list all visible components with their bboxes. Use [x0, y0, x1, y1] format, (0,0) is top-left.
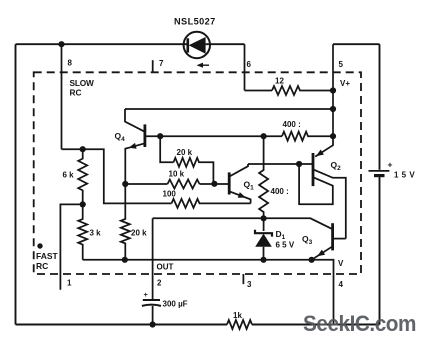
- transistor Q3 label: [302, 234, 313, 246]
- wire: outer border left side: [15, 44, 17, 324]
- pin 6 label: [247, 60, 252, 69]
- svg-text:OUT: OUT: [157, 263, 174, 272]
- svg-text:NSL5027: NSL5027: [174, 17, 216, 27]
- OUT label: [157, 263, 174, 272]
- resistor 400 ohm (horizontal): [282, 132, 333, 141]
- wire: Q1 collector to Q2 base: [248, 163, 313, 165]
- SLOW RC label: [70, 78, 94, 98]
- LED label NSL5027: [174, 17, 216, 27]
- watermark SeekIC.com: [303, 311, 416, 336]
- label 20 k (vertical): [131, 229, 147, 238]
- wire: pin 6 lead from LED: [244, 44, 246, 90]
- pin 7 label: [159, 59, 164, 68]
- wire: top right segment (pin 5 rail to battery): [333, 43, 380, 45]
- node: Q4 base to 20k branch: [157, 133, 163, 139]
- transistor Q3 emitter: [312, 246, 333, 259]
- label 1k: [233, 311, 242, 320]
- svg-text:RC: RC: [36, 261, 48, 271]
- svg-text:10 k: 10 k: [169, 170, 185, 179]
- transistor Q4 collector: [125, 109, 145, 132]
- svg-text:V+: V+: [340, 79, 350, 88]
- node: 400 ohm branch on base line: [261, 133, 267, 139]
- capacitor polarity +: [144, 290, 149, 299]
- wire: OUT line pin 2: [152, 218, 154, 300]
- svg-text:6: 6: [247, 60, 252, 69]
- transistor Q3 base bar: [331, 223, 334, 250]
- svg-text:300 µF: 300 µF: [163, 300, 188, 309]
- svg-text:+: +: [144, 290, 149, 299]
- wire: bottom supply rail (right of 1k): [252, 324, 380, 326]
- svg-text:+: +: [388, 160, 393, 170]
- svg-text:12: 12: [275, 77, 284, 86]
- svg-text:7: 7: [159, 59, 164, 68]
- label 3 k: [90, 229, 102, 238]
- wire: OUT line below capacitor: [152, 306, 154, 325]
- svg-text:1k: 1k: [233, 311, 242, 320]
- svg-text:1 5 V: 1 5 V: [394, 171, 415, 180]
- label 12: [275, 77, 284, 86]
- svg-text:SeekIC.com: SeekIC.com: [303, 311, 416, 336]
- IC package dashed boundary: [34, 72, 361, 274]
- svg-text:6 k: 6 k: [63, 171, 75, 180]
- pin 5 label: [339, 60, 344, 69]
- resistor 100: [172, 199, 251, 208]
- label 20 k: [177, 148, 193, 157]
- pin 4 label: [339, 280, 344, 289]
- svg-text:SLOW: SLOW: [70, 78, 94, 88]
- wire: top border from left corner to LED: [16, 43, 188, 45]
- battery value 15 V: [394, 171, 415, 180]
- battery polarity +: [388, 160, 393, 170]
- pin 2 label: [157, 279, 162, 288]
- svg-text:2: 2: [157, 279, 162, 288]
- svg-text:3: 3: [247, 280, 252, 289]
- resistor 20 k (horizontal): [174, 158, 214, 184]
- pin 1 label: [67, 279, 72, 288]
- wire: 20k left lead: [160, 136, 173, 162]
- node: top border junction to pin 8: [58, 41, 64, 47]
- zener diode D1 cathode bar: [255, 230, 272, 237]
- capacitor value 300 uF: [163, 300, 188, 309]
- svg-text:20 k: 20 k: [177, 148, 193, 157]
- label 6 k: [63, 171, 75, 180]
- node: 400 ohm bottom / D1 top: [261, 215, 267, 221]
- label 400 (vertical): [271, 187, 289, 196]
- transistor Q2 base-collector loop: [299, 164, 333, 204]
- wire: battery top lead: [379, 44, 381, 170]
- transistor Q4 emitter arrow: [129, 143, 137, 149]
- node: Q4 emitter / 10k / 20k junction: [122, 181, 128, 187]
- node: capacitor to bottom rail: [150, 321, 156, 327]
- node: Q4 collector line on V+ rail: [330, 106, 336, 112]
- label 400 (horizontal): [283, 120, 301, 129]
- zener diode D1 label: [276, 229, 286, 241]
- LED NSL5027 cathode bar: [187, 38, 190, 52]
- wire: battery bottom lead: [379, 176, 381, 324]
- pin 3 label: [247, 280, 252, 289]
- svg-text:400 :: 400 :: [271, 187, 289, 196]
- transistor Q3 emitter arrow: [317, 250, 325, 257]
- transistor Q4 label: [115, 131, 126, 143]
- node: D1 bottom on lower bus: [260, 257, 266, 263]
- node: Q3 emitter on lower bus: [309, 257, 315, 263]
- resistor 12 ohm: [272, 86, 333, 95]
- transistor Q2 collector: [314, 170, 346, 239]
- label 10 k: [169, 170, 185, 179]
- resistor 6 k: [78, 149, 87, 204]
- svg-text:6 5 V: 6 5 V: [276, 241, 295, 250]
- svg-text:3 k: 3 k: [90, 229, 102, 238]
- node: 20k bottom on lower bus: [122, 257, 128, 263]
- zener diode D1 triangle: [255, 218, 272, 259]
- wire: 10k left lead from Q4 emitter node: [125, 183, 167, 185]
- transistor Q1 base bar: [228, 172, 231, 194]
- svg-text:20 k: 20 k: [131, 229, 147, 238]
- wire: LED to pin 6 corner: [206, 43, 245, 45]
- transistor Q2 emitter arrow: [316, 150, 324, 157]
- wire: Q4 base line: [145, 135, 282, 137]
- transistor Q2 label: [331, 160, 342, 172]
- wire: bottom supply rail (left of 1k): [16, 324, 228, 326]
- LED NSL5027 triangle: [189, 37, 206, 54]
- wire: Q4 collector rail to V+: [125, 108, 333, 110]
- svg-text:100: 100: [163, 190, 177, 199]
- svg-text:FAST: FAST: [36, 251, 59, 261]
- LED NSL5027 circle: [184, 32, 210, 58]
- V label: [338, 259, 344, 268]
- svg-text:4: 4: [339, 280, 344, 289]
- transistor Q1 label: [244, 180, 255, 192]
- FAST RC label: [36, 251, 59, 271]
- resistor 10 k: [168, 180, 200, 189]
- capacitor C1 300 uF plates: [142, 300, 161, 306]
- wire: 400/D1 node to Q3 base line: [153, 218, 332, 228]
- wire: 6k bottom to pin 1: [60, 204, 82, 289]
- node: 12 ohm to V+ rail: [330, 87, 336, 93]
- resistor 20 k (vertical): [121, 184, 130, 260]
- zener diode D1 value: [276, 241, 295, 250]
- wire: lower internal bus: [83, 260, 334, 325]
- svg-text:400 :: 400 :: [283, 120, 301, 129]
- wire: 10k to Q1 base: [200, 183, 229, 185]
- pin 8 label: [68, 59, 73, 68]
- transistor Q4 base bar: [143, 124, 146, 147]
- wire: pin 5 V+ rail: [332, 44, 334, 136]
- node: Q1 base junction: [211, 181, 217, 187]
- wire: pin 8 lead: [61, 44, 63, 149]
- label 100: [163, 190, 177, 199]
- battery B1 15 V plates: [369, 171, 390, 176]
- svg-text:8: 8: [68, 59, 73, 68]
- svg-text:1: 1: [67, 279, 72, 288]
- transistor Q1 collector: [229, 164, 248, 177]
- resistor 400 ohm (vertical): [259, 136, 268, 218]
- transistor Q2 base bar: [312, 153, 315, 186]
- transistor Q1 emitter: [229, 191, 250, 203]
- transistor Q3 collector: [333, 238, 346, 240]
- LED current direction arrow: [197, 63, 210, 68]
- node: Q2 base-collector tie: [296, 161, 302, 167]
- svg-text:V: V: [338, 259, 344, 268]
- svg-text:RC: RC: [70, 88, 82, 98]
- node: 400 ohm to V+ rail / Q2 emitter: [330, 133, 336, 139]
- resistor 3 k: [78, 204, 87, 259]
- svg-text:5: 5: [339, 60, 344, 69]
- node: 6k top junction: [80, 146, 86, 152]
- pin 3 stub: [242, 274, 244, 284]
- pin 7 stub: [152, 60, 154, 72]
- V+ label: [340, 79, 350, 88]
- transistor Q4 emitter: [125, 143, 145, 184]
- wire: pin 8 internal path to 100 ohm: [62, 149, 172, 203]
- node: 6k bottom junction: [80, 201, 86, 207]
- transistor Q2 emitter: [315, 136, 333, 156]
- resistor 1k: [227, 320, 252, 329]
- FAST RC terminal dot: [37, 243, 42, 248]
- transistor Q1 emitter arrow: [238, 192, 246, 198]
- wire: pin 6 to 12 ohm: [245, 90, 273, 92]
